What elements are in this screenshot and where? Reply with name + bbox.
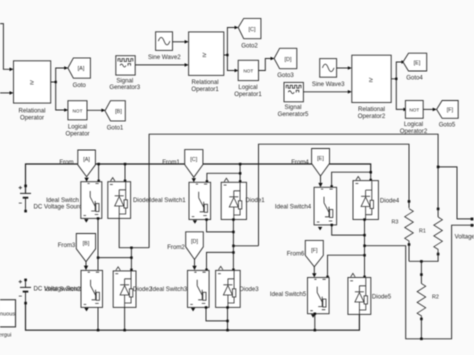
svg-text:DC Voltage Source: DC Voltage Source xyxy=(34,204,86,211)
relational operator U2 xyxy=(189,32,224,76)
wire input2 to Relational Operator xyxy=(0,91,14,95)
svg-text:[E]: [E] xyxy=(317,156,324,162)
label Ideal Switch2 xyxy=(44,286,81,293)
label DC Voltage Source xyxy=(34,204,86,211)
svg-text:Operator: Operator xyxy=(65,130,89,137)
diode D5 xyxy=(348,273,371,314)
svg-text:Goto3: Goto3 xyxy=(277,72,294,79)
svg-text:Diode2: Diode2 xyxy=(133,286,153,293)
wire node B takeoff W2 to R3 xyxy=(259,144,410,246)
wire trunk to W2 riser xyxy=(233,245,258,247)
wire NOT to Goto1 xyxy=(87,109,105,113)
label Ideal Switch1 xyxy=(149,197,186,204)
svg-text:[A]: [A] xyxy=(78,66,85,72)
label Diode1 xyxy=(245,197,265,204)
svg-text:≥: ≥ xyxy=(369,75,373,84)
svg-text:≥: ≥ xyxy=(203,50,207,59)
svg-text:NOT: NOT xyxy=(243,69,253,74)
from tag E xyxy=(312,149,330,188)
goto tag E xyxy=(403,53,427,81)
wire node A takeoff W1 to R1 and voltmeter xyxy=(149,134,438,248)
label Relational Operator2 xyxy=(358,106,386,120)
wire NOT1 to Goto3 xyxy=(259,57,275,71)
goto tag C xyxy=(238,18,261,49)
wire switch4 bottom elbow xyxy=(331,224,365,235)
wire voltmeter minus loop xyxy=(365,225,474,339)
wire SW2 to RelOp1 xyxy=(173,40,189,44)
label Relational Operator xyxy=(18,108,45,122)
wire voltmeter plus lead xyxy=(437,166,474,227)
svg-text:Sine Wave2: Sine Wave2 xyxy=(148,54,181,61)
relational operator U3 xyxy=(352,55,391,102)
diode D2 xyxy=(113,267,136,308)
svg-text:Voltage: Voltage xyxy=(455,234,474,241)
svg-text:Operator1: Operator1 xyxy=(191,86,219,93)
label Relational Operator1 xyxy=(191,79,219,93)
resistor R2 xyxy=(417,284,426,341)
wire rail drop to switch1 and diode1 xyxy=(206,163,242,183)
label Logical Operator xyxy=(65,124,89,138)
svg-text:Ideal Switch4: Ideal Switch4 xyxy=(275,204,312,211)
wire rail to Diode top xyxy=(124,163,127,182)
label Voltage Measurement xyxy=(455,234,474,241)
label Ideal Switch xyxy=(46,197,79,204)
switch E-port arrows xyxy=(84,219,322,318)
svg-text:[F]: [F] xyxy=(447,108,454,114)
wire SG5 to RelOp2 xyxy=(303,90,351,94)
svg-text:[C]: [C] xyxy=(190,157,198,163)
svg-text:[E]: [E] xyxy=(414,60,421,66)
wire RelOp1 output split xyxy=(224,26,239,73)
wire diode bottom elbow to node A xyxy=(119,218,149,249)
goto tag A xyxy=(68,58,91,89)
diode D4 xyxy=(353,177,378,220)
svg-text:Goto: Goto xyxy=(73,82,87,89)
logical operator NOT1 xyxy=(238,60,258,80)
wire input1 to Relational Operator xyxy=(0,24,14,72)
label Diode5 xyxy=(372,294,392,301)
label From6 xyxy=(287,250,305,257)
wire SG3 to RelOp1 xyxy=(135,63,188,67)
svg-text:From4: From4 xyxy=(291,159,309,166)
svg-text:NOT: NOT xyxy=(409,108,419,113)
wire top DC rail xyxy=(26,164,371,193)
svg-text:Operator2: Operator2 xyxy=(358,113,386,120)
ideal switch S6 xyxy=(308,278,330,314)
wire rail corner to diode4 and switch4 xyxy=(330,171,372,188)
svg-text:powergui: powergui xyxy=(0,333,11,339)
from tag C xyxy=(185,150,203,183)
label R2 xyxy=(432,294,439,300)
svg-text:[A]: [A] xyxy=(83,157,90,163)
wire RelOp output split xyxy=(51,66,68,112)
label Signal Generator5 xyxy=(278,104,309,118)
ideal switch S3 xyxy=(189,182,211,219)
svg-text:Goto4: Goto4 xyxy=(406,75,423,82)
ideal switch S4 xyxy=(188,270,210,307)
svg-text:[C]: [C] xyxy=(248,27,256,33)
wire RelOp2 output split xyxy=(391,60,407,111)
wire NOT2 to Goto5 xyxy=(423,108,437,112)
goto tag F xyxy=(437,101,459,129)
svg-text:Ideal Switch1: Ideal Switch1 xyxy=(149,197,186,204)
label From1 xyxy=(162,159,180,166)
label Ideal Switch3 xyxy=(151,286,188,293)
label From xyxy=(59,159,73,166)
svg-text:Ideal Switch3: Ideal Switch3 xyxy=(151,286,188,293)
svg-text:Diode3: Diode3 xyxy=(239,286,259,293)
svg-text:R1: R1 xyxy=(419,229,426,235)
from tag D xyxy=(186,232,204,270)
wire trunk to switch3 top xyxy=(205,252,233,271)
svg-text:Diode5: Diode5 xyxy=(372,294,392,301)
label DC Voltage Source1 xyxy=(34,286,90,293)
svg-text:[B]: [B] xyxy=(115,109,122,115)
svg-text:From6: From6 xyxy=(287,250,305,257)
svg-text:Diode: Diode xyxy=(133,197,150,204)
svg-text:Sine Wave3: Sine Wave3 xyxy=(312,81,345,88)
from tag B xyxy=(76,234,95,271)
signal generator SG3 xyxy=(116,56,135,75)
label Diode4 xyxy=(380,198,400,205)
powergui block xyxy=(0,300,16,339)
label Ideal Switch4 xyxy=(275,204,312,211)
resistor R3 xyxy=(405,200,414,261)
label Signal Generator3 xyxy=(109,77,140,91)
svg-text:Ideal Switch2: Ideal Switch2 xyxy=(44,286,81,293)
label From2 xyxy=(167,244,185,251)
svg-text:[F]: [F] xyxy=(311,248,318,254)
svg-text:Ideal Switch: Ideal Switch xyxy=(46,197,79,204)
svg-text:Ideal Switch5: Ideal Switch5 xyxy=(270,291,307,298)
DC voltage source V2 xyxy=(19,279,31,305)
svg-text:Generator3: Generator3 xyxy=(109,84,140,91)
svg-text:R2: R2 xyxy=(432,294,439,300)
wire switch bottom to lower switch xyxy=(97,217,100,270)
label R3 xyxy=(392,220,399,226)
wire diode3 bottom to rail xyxy=(226,306,229,331)
svg-text:Goto5: Goto5 xyxy=(439,122,456,129)
diode D3 xyxy=(216,266,241,307)
svg-text:Generator5: Generator5 xyxy=(278,111,309,118)
label Sine Wave3 xyxy=(312,81,345,88)
svg-text:Goto1: Goto1 xyxy=(107,125,124,132)
svg-text:Continuous: Continuous xyxy=(0,312,15,318)
wire switch1 bottom elbow to trunk xyxy=(205,218,233,232)
wire diode2 bottom to rail xyxy=(123,307,126,331)
svg-text:Operator: Operator xyxy=(20,115,44,122)
svg-text:From: From xyxy=(59,159,73,166)
svg-text:Operator1: Operator1 xyxy=(234,91,262,98)
wire SW3 to RelOp2 xyxy=(337,66,352,70)
goto tag D xyxy=(274,48,297,79)
wire node A rail xyxy=(98,248,133,271)
wire trunk to switch5 top xyxy=(326,255,364,278)
relational operator U1 xyxy=(14,61,51,103)
label From4 xyxy=(291,159,309,166)
wire leg3 trunk xyxy=(363,218,366,278)
wire rail to Ideal Switch top xyxy=(97,163,100,182)
ideal switch S1 xyxy=(81,182,102,219)
from tag F xyxy=(305,240,323,277)
svg-text:Diode4: Diode4 xyxy=(380,198,400,205)
goto tag B xyxy=(105,101,125,132)
diode D1a xyxy=(108,178,131,219)
svg-text:From2: From2 xyxy=(167,244,185,251)
svg-text:NOT: NOT xyxy=(73,108,83,113)
label Sine Wave2 xyxy=(148,54,181,61)
wire R join to R2 xyxy=(420,260,423,283)
label Logical Operator1 xyxy=(234,84,262,98)
svg-text:[D]: [D] xyxy=(191,239,199,245)
sine wave SW2 xyxy=(156,32,173,51)
svg-text:R3: R3 xyxy=(392,220,399,226)
svg-text:Diode1: Diode1 xyxy=(245,197,265,204)
label Ideal Switch5 xyxy=(270,291,307,298)
label Logical Operator2 xyxy=(400,121,428,135)
logical operator NOT2 xyxy=(405,101,423,119)
svg-text:From1: From1 xyxy=(162,159,180,166)
sine wave SW3 xyxy=(320,59,337,78)
svg-text:[D]: [D] xyxy=(284,57,292,63)
ideal switch S2 xyxy=(81,270,103,307)
ideal switch S5 xyxy=(314,187,337,225)
label Diode2 xyxy=(133,286,153,293)
wire switch2 bottom to rail xyxy=(97,307,100,331)
svg-text:From3: From3 xyxy=(58,242,76,249)
svg-text:[B]: [B] xyxy=(83,241,90,247)
svg-text:≥: ≥ xyxy=(30,78,34,87)
signal generator SG5 xyxy=(284,82,303,101)
wire bottom DC rail xyxy=(26,303,360,330)
svg-text:Goto2: Goto2 xyxy=(241,43,258,50)
wire switch5 bottom to rail xyxy=(314,313,317,332)
label Diode3 xyxy=(239,286,259,293)
label From3 xyxy=(58,242,76,249)
from tag A xyxy=(78,150,96,182)
resistor R1 xyxy=(409,208,442,262)
DC voltage source V1 xyxy=(19,185,31,213)
diode D1 xyxy=(221,178,246,219)
label Diode xyxy=(133,197,150,204)
wire switch3 bottom elbow xyxy=(205,306,228,321)
label R1 xyxy=(419,229,426,235)
logical operator NOT xyxy=(68,101,87,120)
wire leg2 trunk xyxy=(232,218,235,271)
